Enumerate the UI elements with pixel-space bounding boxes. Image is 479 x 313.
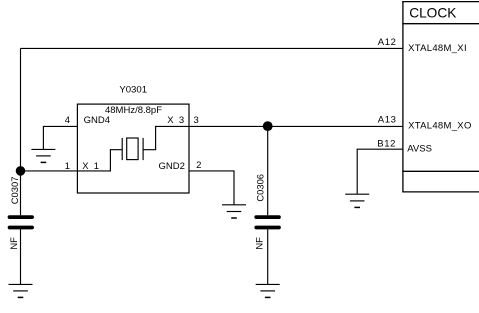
svg-text:Y0301: Y0301 [119,85,147,96]
wire net XTAL48M_XI horizontal A12 [21,47,403,49]
wire GND2 pin 2 to ground [189,171,234,205]
svg-text:GND2: GND2 [159,161,185,172]
svg-text:CLOCK: CLOCK [409,6,456,21]
ground for GND4 pin [31,149,55,162]
crystal Y0301 body box [77,104,189,193]
svg-text:C0306: C0306 [254,174,265,202]
ground under C0307 [9,284,33,297]
wire C0307 to ground [20,229,22,284]
junction node XTAL48M_XO [263,121,273,131]
crystal element rectangle [127,138,138,160]
svg-text:C0307: C0307 [9,177,20,205]
crystal right plate [142,138,144,160]
ground for AVSS B12 [345,194,369,207]
svg-text:X 3: X 3 [167,115,184,126]
wire GND4 pin 4 to ground [43,126,77,149]
wire net XTAL48M_XI vertical [20,48,22,170]
svg-text:AVSS: AVSS [407,144,432,155]
svg-text:B12: B12 [377,139,396,150]
capacitor C0306 [256,217,279,227]
wire down to C0307 [20,171,22,215]
ground under C0306 [256,284,280,297]
svg-text:NF: NF [8,237,19,250]
svg-text:1: 1 [65,161,70,172]
wire C0306 to ground [267,229,269,284]
svg-text:A12: A12 [378,37,397,48]
capacitor C0307 [10,217,33,227]
svg-text:GND4: GND4 [84,115,110,126]
CLOCK block outline [402,1,479,192]
wire net XTAL48M_XO pin3 to CLOCK A13 [189,125,403,127]
junction node XTAL48M_XI [16,166,26,176]
crystal left plate [121,138,123,160]
crystal symbol leads [77,126,189,170]
svg-text:4: 4 [65,115,70,126]
svg-text:NF: NF [254,237,265,250]
ground for GND2 pin [222,205,246,218]
wire AVSS B12 to ground [357,149,403,194]
svg-text:48MHz/8.8pF: 48MHz/8.8pF [105,105,162,116]
svg-text:XTAL48M_XI: XTAL48M_XI [408,43,467,54]
svg-text:3: 3 [194,115,199,126]
svg-text:XTAL48M_XO: XTAL48M_XO [408,120,472,131]
svg-text:A13: A13 [378,115,397,126]
wire to crystal pin 1 [21,170,78,172]
wire down to C0306 [267,126,269,215]
svg-text:2: 2 [196,160,201,171]
